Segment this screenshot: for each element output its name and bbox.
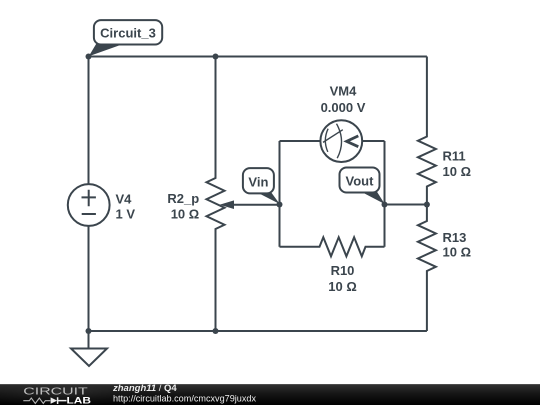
svg-text:0.000 V: 0.000 V: [321, 100, 366, 115]
wire Vout vertical (VM4 right lead down to R10 right corner): [384, 141, 386, 247]
label R10 name and value: [328, 263, 357, 294]
svg-text:http://circuitlab.com/cmcxvg79: http://circuitlab.com/cmcxvg79juxdx: [113, 394, 256, 404]
wire top net from node A to right branch: [89, 56, 427, 58]
resistor R10: [280, 237, 385, 256]
net flag Vin: [243, 168, 280, 204]
wire left branch bottom (V4 minus terminal to ground node): [88, 226, 90, 331]
net flag Vout: [340, 168, 385, 205]
label R13 name and value: [443, 230, 472, 260]
svg-text:10 Ω: 10 Ω: [443, 245, 472, 260]
svg-text:10 Ω: 10 Ω: [171, 207, 200, 222]
junction dot ground node: [86, 328, 92, 334]
svg-text:Vout: Vout: [346, 174, 375, 189]
node A junction dot (top left): [86, 54, 92, 60]
svg-text:R2_p: R2_p: [167, 191, 199, 206]
svg-text:R11: R11: [443, 149, 466, 164]
svg-text:R10: R10: [331, 263, 355, 278]
wire Vout node to right branch: [385, 204, 427, 206]
label R11 name and value: [443, 149, 472, 180]
wire Vin vertical (VM4 left lead down to R10 left corner): [279, 141, 281, 247]
potentiometer R2_p body: [207, 57, 225, 332]
junction dot between R11 and R13: [424, 202, 430, 208]
junction dot top of R2_p: [213, 54, 219, 60]
svg-text:Circuit_3: Circuit_3: [100, 26, 156, 41]
svg-text:10 Ω: 10 Ω: [443, 164, 472, 179]
wire left branch top (node A to V4 plus terminal): [88, 57, 90, 185]
net label Circuit_3: [89, 20, 162, 56]
resistor R13: [418, 205, 436, 332]
label V4 name and value: [116, 192, 136, 222]
svg-text:R13: R13: [443, 230, 467, 245]
svg-text:1 V: 1 V: [116, 207, 136, 222]
ground: [71, 331, 107, 366]
wire VM4 left horizontal: [280, 140, 321, 142]
voltage source V4: [68, 184, 110, 226]
CircuitLab logo wordmark: [23, 385, 91, 405]
svg-text:zhangh11 / Q4: zhangh11 / Q4: [112, 383, 177, 394]
svg-text:10 Ω: 10 Ω: [328, 279, 357, 294]
wire VM4 right horizontal: [362, 140, 384, 142]
svg-text:VM4: VM4: [330, 84, 358, 99]
svg-text:V4: V4: [116, 192, 133, 207]
junction dot bottom of R2_p: [213, 328, 219, 334]
potentiometer R2_p wiper arrow: [220, 200, 280, 209]
label R2_p name and value: [167, 191, 199, 222]
svg-text:LAB: LAB: [67, 396, 92, 405]
label VM4 name and value: [321, 84, 366, 116]
node Vout junction dot: [382, 202, 388, 208]
node Vin junction dot: [277, 202, 283, 208]
voltmeter VM4: [320, 120, 362, 162]
footer bar: [0, 381, 540, 405]
svg-text:Vin: Vin: [248, 174, 268, 189]
resistor R11: [418, 57, 436, 205]
wire bottom net: [89, 330, 427, 332]
